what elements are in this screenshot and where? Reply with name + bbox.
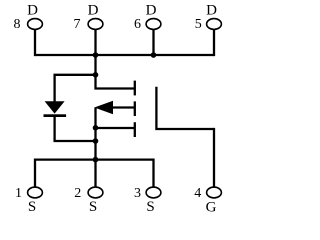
svg-text:G: G <box>206 200 217 216</box>
wire drain feed <box>96 54 135 89</box>
svg-text:6: 6 <box>134 17 141 32</box>
junction dot bus-pin6 <box>151 52 157 58</box>
svg-text:5: 5 <box>195 17 202 32</box>
wire source stub <box>96 127 135 129</box>
svg-text:S: S <box>146 199 154 215</box>
transistor Q1 body arrow line <box>112 106 135 108</box>
svg-text:D: D <box>146 3 157 19</box>
pin 4 terminal <box>207 187 222 198</box>
wire top bus D <box>35 54 214 56</box>
junction dot source bus <box>93 157 99 163</box>
svg-text:D: D <box>206 3 217 19</box>
svg-text:4: 4 <box>194 186 201 201</box>
pin 8 terminal <box>28 19 43 30</box>
wire diode top branch <box>55 75 96 102</box>
wire diode bottom branch <box>55 117 96 141</box>
svg-text:S: S <box>89 199 97 215</box>
wire pin6 drop <box>152 29 154 55</box>
pin 6 terminal <box>146 19 161 30</box>
pin 5 terminal <box>207 19 222 30</box>
wire pin8 drop <box>34 29 36 56</box>
wire pin3 riser <box>152 159 154 188</box>
pin 7 terminal <box>88 19 103 30</box>
svg-text:D: D <box>88 3 99 19</box>
pin 2 terminal <box>88 187 103 198</box>
svg-text:3: 3 <box>134 186 141 201</box>
svg-text:2: 2 <box>74 186 81 201</box>
wire pin5 drop <box>213 29 215 56</box>
svg-text:D: D <box>27 3 38 19</box>
transistor Q1 channel bar middle <box>134 101 136 116</box>
svg-text:8: 8 <box>14 17 21 32</box>
transistor Q1 channel bar top <box>134 81 136 96</box>
wire source bus S <box>35 158 154 160</box>
junction dot source stub <box>93 125 99 131</box>
wire source/body vertical <box>94 108 96 188</box>
pin 3 terminal <box>146 187 161 198</box>
junction dot bus-pin7 <box>93 52 99 58</box>
junction dot diode top <box>93 72 99 78</box>
wire gate line <box>156 87 214 129</box>
wire pin1 riser <box>34 159 36 188</box>
diode D1 cathode bar <box>44 114 67 117</box>
svg-text:S: S <box>28 199 36 215</box>
transistor Q1 channel bar bottom <box>134 122 136 137</box>
diode D1 triangle <box>45 101 65 113</box>
svg-text:7: 7 <box>74 17 81 32</box>
svg-text:1: 1 <box>15 186 22 201</box>
wire pin7 drop <box>94 29 96 55</box>
junction dot diode bottom <box>93 138 99 144</box>
pin 1 terminal <box>28 187 43 198</box>
wire pin4 riser <box>213 128 215 187</box>
transistor Q1 body arrow head <box>94 101 113 114</box>
